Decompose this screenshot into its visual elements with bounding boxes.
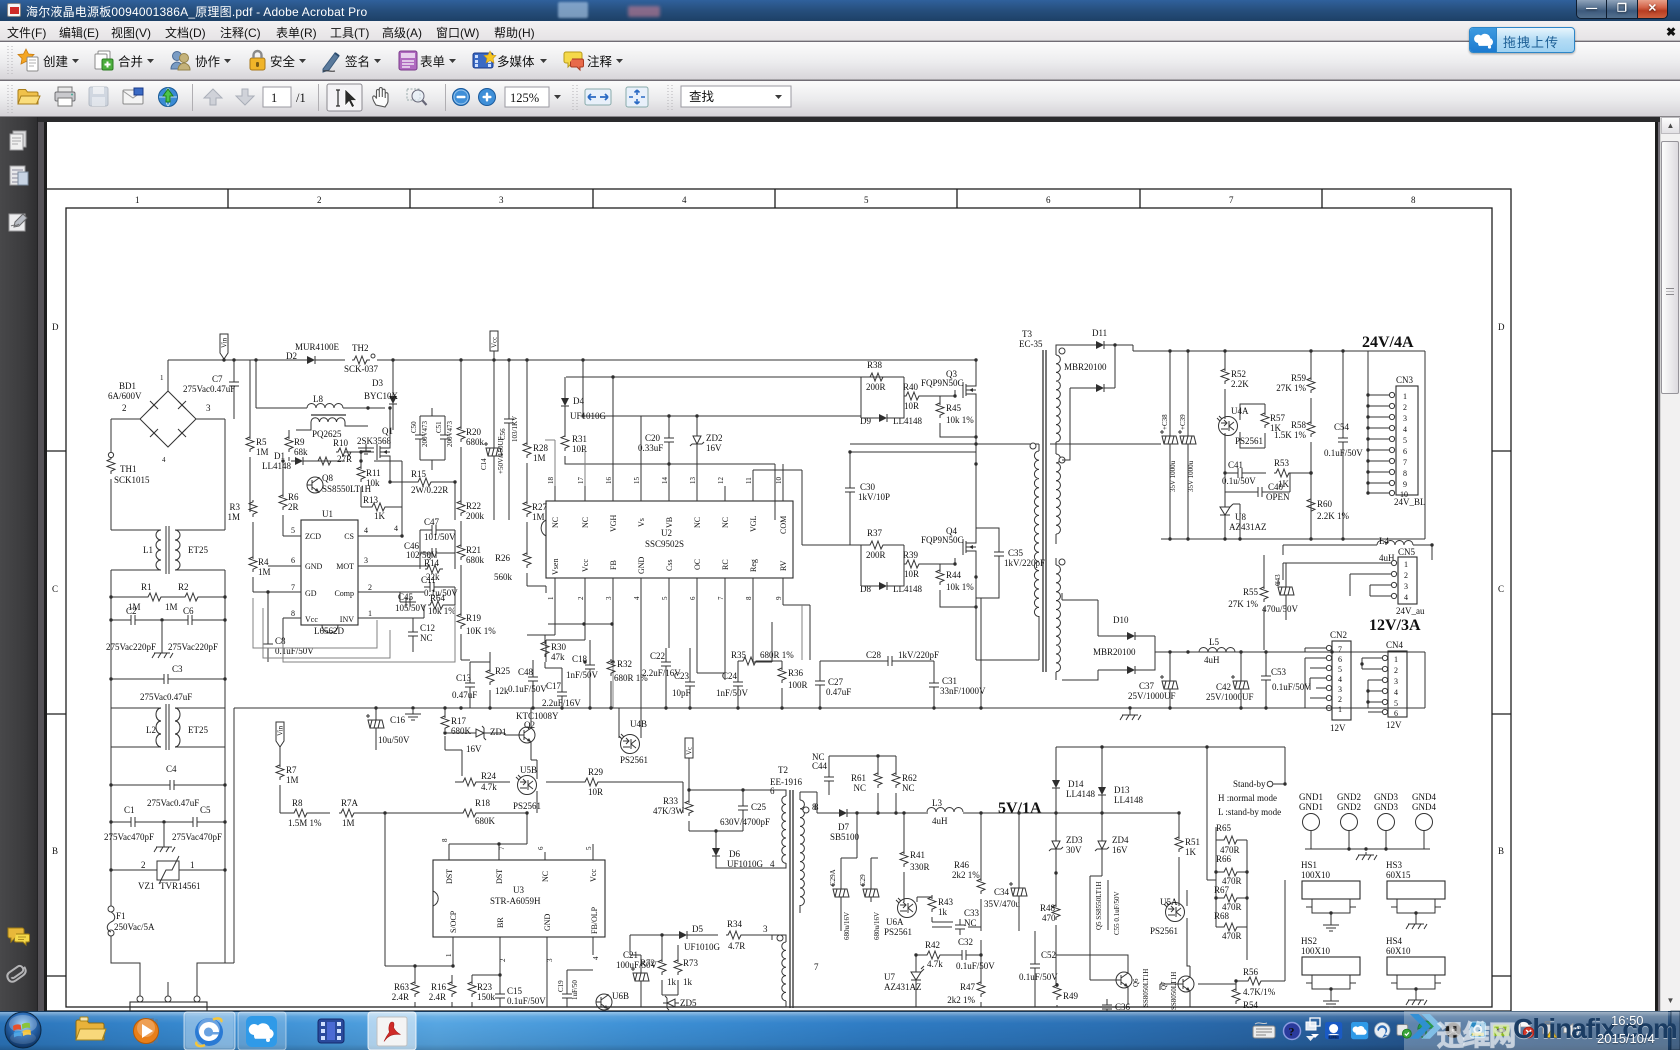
resistor R52 2.2K: [1221, 367, 1229, 384]
node Vcc flag: [490, 331, 499, 360]
capacitor C24 1nF/50V: [733, 676, 743, 692]
icon 注释: [564, 52, 584, 70]
zener ZD3 30V: [1049, 837, 1063, 853]
left panel icon layers: [10, 166, 28, 185]
icon save (disabled): [89, 87, 108, 106]
wire feedback loops under U1: [253, 598, 390, 658]
toolbar row 1: [0, 42, 1680, 80]
resistor R56 4.7K/1%: [1246, 977, 1264, 985]
capacitor C47 101/50V: [426, 525, 442, 535]
fuse F1 250Vac/5A: [108, 906, 114, 912]
tray keyboard icon: [1253, 1023, 1275, 1038]
page number box: [263, 87, 291, 107]
resistor R16 2.4R: [448, 980, 456, 997]
resistor R45 10k 1%: [936, 401, 944, 418]
capacitor C56 103/1KV: [504, 413, 514, 429]
capacitor C21 100uF/50V: [631, 967, 649, 986]
capacitor C1 275Vac470pF: [125, 817, 141, 827]
capacitor C48 0.1uF/50V: [528, 671, 538, 687]
mid rail from T3: [850, 443, 1161, 445]
capacitor C41 0.1u/50V: [1232, 468, 1248, 478]
fit width button: [585, 89, 611, 105]
capacitor C51 200V473: [440, 429, 450, 445]
tray baidu cloud: [1351, 1022, 1368, 1039]
wire L8 to D3: [343, 407, 385, 409]
toolbar row 2: [0, 81, 1680, 117]
wire gate feed: [566, 376, 861, 378]
icon 创建: [18, 49, 38, 71]
wire AC top rail y360: [168, 359, 976, 361]
resistor R17 680K: [441, 714, 449, 731]
resistor R47 2k2 1%: [977, 980, 985, 997]
wires from U2 bottom pins: [555, 593, 783, 708]
capacitor C12 NC: [408, 626, 418, 642]
tray qq live: [1325, 1022, 1342, 1039]
resistor R11 10k: [357, 465, 365, 482]
transistor Q1 2SK3568: [377, 442, 390, 462]
resistor R62 NC: [892, 771, 900, 788]
svg-text:?: ?: [1289, 1025, 1295, 1039]
resistor R1 1M: [146, 593, 164, 601]
show desktop sliver: [1671, 1011, 1680, 1050]
T3 secondary bottom winding: [1056, 565, 1060, 672]
T3 primary winding: [1034, 451, 1039, 617]
icon page down (disabled): [236, 89, 254, 105]
node Vc flag: [685, 738, 694, 790]
tray window stack: [1306, 1018, 1320, 1038]
resistor R7A 1M: [339, 809, 357, 817]
resistor R48 470: [1052, 903, 1060, 920]
capacitor C19 1uF/50: [562, 988, 572, 1004]
ground (C2/C6 midpoint): [152, 622, 173, 658]
resistor R28 1M: [523, 441, 531, 458]
capacitor C3 275Vac0.47uF: [158, 674, 174, 684]
ground (12V rect): [1120, 712, 1141, 720]
resistor R2 1M: [183, 593, 201, 601]
resistor R54: [1232, 987, 1240, 1004]
hand tool: [373, 88, 388, 108]
icon 表单: [399, 51, 417, 70]
capacitor C16 10u/50V: [366, 714, 384, 733]
diode D7 SB5100: [835, 809, 851, 817]
capacitor C43 470u/50V: [1276, 581, 1294, 600]
capacitor C29 680u/16V: [861, 883, 879, 902]
resistor R51 1K: [1175, 835, 1183, 852]
zoom out button: [453, 89, 470, 106]
fit page button: [626, 87, 648, 107]
diode D4 UF1010G: [561, 394, 569, 410]
resistor R63 2.4R: [411, 980, 419, 997]
transistor Q4 FQP9N50C: [963, 537, 976, 557]
icon page up (disabled): [204, 89, 222, 105]
node Vin flag (aux): [276, 722, 285, 756]
T3 secondary mid winding: [1056, 454, 1060, 534]
resistor R7 1M: [276, 763, 284, 780]
resistor R23 150k: [468, 980, 476, 997]
resistor R57 1K: [1261, 411, 1269, 428]
resistor R26 560k: [523, 551, 531, 568]
resistor R3 1M: [249, 500, 257, 517]
drawing frame inner border: [66, 208, 1492, 1007]
optocoupler U4B PS2561: [619, 734, 640, 754]
window title bar: [0, 0, 1680, 21]
svg-text:LIVE: LIVE: [1329, 1035, 1338, 1039]
ground (C1/C5 midpoint): [154, 824, 175, 852]
resistor R49: [1053, 983, 1061, 1000]
capacitor C40 OPEN: [1252, 487, 1268, 497]
capacitor C14 +50V/150UF: [484, 442, 502, 461]
tray phone: [1446, 1023, 1461, 1038]
capacitor C20 0.33uF: [664, 432, 674, 448]
capacitor C42 25V/1000UF: [1231, 675, 1249, 694]
tray umbrella: [1418, 1021, 1434, 1038]
resistor R35 680R 1%: [741, 657, 759, 665]
icon email: [123, 88, 143, 104]
resistor R58 1.5K 1%: [1307, 420, 1315, 437]
zener ZD4 16V: [1095, 837, 1109, 853]
resistor R8 1.5M 1%: [292, 809, 310, 817]
resistor R20 680k: [457, 425, 465, 442]
T2 aux winding: [782, 942, 786, 1001]
separator: [192, 84, 193, 111]
resistor R59 27K 1%: [1307, 376, 1315, 393]
wire half-bridge node: [976, 444, 1039, 537]
resistor R15 2W/0.22R: [416, 478, 434, 486]
IE active box: [184, 1012, 235, 1050]
inductor L8: [307, 404, 343, 409]
optocoupler U5B PS2561: [516, 775, 537, 795]
thermistor TH1 SCK1015: [110, 419, 112, 452]
wires to AC input connector: [111, 906, 225, 999]
baidu cloud active box: [238, 1012, 286, 1050]
ground bus for terminals: [1305, 848, 1430, 850]
resistor R5 1M: [246, 435, 254, 452]
tray camera blue: [1470, 1022, 1486, 1038]
taskbar: [0, 1011, 1680, 1050]
select tool (pressed): [327, 84, 362, 111]
optocoupler U5A PS2561: [1164, 902, 1185, 922]
T2 primary winding: [782, 796, 786, 863]
resistor R10 27R: [336, 448, 354, 456]
transistor Q3 FQP9N50C: [963, 380, 976, 400]
frame row ticks: [46, 451, 1511, 976]
vertical scrollbar: [1660, 117, 1680, 1011]
frame column ticks: [228, 189, 1322, 208]
capacitor C33 NC: [955, 919, 965, 935]
resistor R42 4.7k: [925, 951, 943, 959]
capacitor C29A 680u/16V: [831, 883, 849, 902]
icon print: [55, 87, 75, 106]
resistor R37 200R: [868, 541, 886, 549]
IC U1 L6562D: [301, 520, 358, 625]
transistor Q6 SS8050LT1H: [1116, 972, 1132, 988]
diode D11 MBR20100 (dual): [1092, 341, 1108, 349]
start orb: [5, 1012, 41, 1048]
capacitor C46 102/50V: [426, 548, 442, 558]
resistor R53 1K: [1274, 469, 1292, 477]
resistor R39 10R: [904, 560, 922, 568]
transistor Q8 SS8550LT1H: [307, 477, 323, 493]
capacitor C5 275Vac470pF: [187, 817, 203, 827]
shunt ref U7 AZ431AZ: [911, 968, 924, 984]
diode D6 UF1010G: [712, 844, 720, 860]
diode D13 LL4148: [1098, 783, 1106, 799]
zoom in button: [479, 89, 496, 106]
resistor R41 330R: [900, 850, 908, 867]
capacitor C37 25V/1000UF: [1160, 675, 1178, 694]
capacitor C34 35V/470u: [1009, 882, 1027, 901]
transformer L1 ET25 common-mode choke: [111, 526, 225, 574]
diode D2 MUR4100E: [303, 356, 319, 364]
resistor R46 2k2 1%: [977, 877, 985, 894]
gray feedback wires: [548, 605, 810, 673]
connector CN3: [1396, 386, 1418, 495]
watermark arrow logo: [1410, 1014, 1442, 1039]
tray swirl: [1374, 1022, 1390, 1038]
inductor L4 4uH: [1377, 541, 1413, 546]
drag-upload button: [1469, 27, 1575, 53]
explorer folder icon: [76, 1017, 106, 1040]
toolbar grip dots: [8, 46, 12, 76]
left panel icon comments: [8, 928, 30, 945]
search box: [668, 85, 672, 111]
diode D9 LL4148: [875, 414, 891, 422]
U2 bottom pins: [555, 578, 783, 593]
24V right rail: [1424, 351, 1426, 539]
thermistor TH2 SCK-037: [352, 354, 375, 364]
inductor L5 4uH: [1199, 648, 1235, 653]
capacitor C18 1nF/50V: [585, 659, 595, 675]
resistor R21 680k: [457, 543, 465, 560]
wire PFC node: [256, 360, 307, 408]
left panel icon pages: [10, 131, 26, 150]
capacitor C35 1kV/220pF: [994, 546, 1004, 562]
T3 secondary top winding: [1056, 355, 1060, 442]
tray usb check: [1397, 1025, 1411, 1039]
capacitor C7: [229, 376, 239, 392]
resistor R14 22k: [425, 565, 443, 573]
zener ZD5: [663, 996, 679, 1010]
capacitor C32 0.1uF/50V: [956, 950, 972, 960]
resistor R60 2.2K 1%: [1307, 497, 1315, 514]
resistor R72 1k: [658, 958, 666, 975]
resistor R55 27K 1%: [1260, 585, 1268, 602]
separator: [573, 85, 577, 111]
12V right rail: [1424, 652, 1426, 708]
capacitor C30 1kV/10P: [845, 482, 855, 498]
capacitor C54 0.1uF/50V: [1338, 432, 1348, 448]
resistor R36 100R: [778, 666, 786, 683]
resistor R9 68k: [285, 435, 293, 452]
U2 top pins: [555, 486, 783, 501]
transistor Q2 KTC1008Y: [519, 727, 535, 743]
shunt ref U8 AZ431AZ: [1220, 503, 1233, 519]
capacitor C31 33nF/1000V: [929, 677, 939, 693]
capacitor C27 0.47uF: [815, 675, 825, 691]
menu bar: [0, 21, 1680, 41]
connector CN5: [1398, 557, 1417, 604]
resistor R27 1M: [523, 500, 531, 517]
capacitor C17 2.2uF/16V: [557, 686, 567, 702]
media player icon: [318, 1019, 344, 1043]
transformer PQ2625 aux winding: [311, 414, 346, 416]
capacitor C50 200V473: [415, 429, 425, 445]
resistor R29 10R: [583, 778, 601, 786]
transistor U6B: [596, 994, 612, 1010]
bridge rectifier BD1: [140, 391, 196, 447]
separator: [445, 84, 446, 111]
capacitor C38 35V1000u: [1160, 430, 1178, 449]
capacitor C39 35V1000u: [1178, 430, 1196, 449]
icon 安全: [250, 51, 265, 70]
zener ZD1 16V: [472, 726, 488, 740]
resistor R44 10k 1%: [936, 568, 944, 585]
capacitor C2 275Vac220pF: [125, 615, 141, 625]
zoom tool: [407, 89, 427, 105]
wires from U2 top pins: [613, 377, 802, 520]
resistor R30 47k: [541, 640, 549, 657]
resistor R73 1k: [674, 958, 682, 975]
adobe active box: [368, 1012, 416, 1050]
tray speaker: [1564, 1024, 1579, 1037]
left panel icon signature: [9, 214, 27, 231]
capacitor C45 105/50V: [400, 597, 416, 607]
tray action flag: [1520, 1021, 1534, 1038]
resistor R25 12k: [486, 668, 494, 685]
diode D8 LL4148: [875, 582, 891, 590]
node Vin flag (top): [220, 334, 229, 360]
diode D3 BYC10X: [389, 392, 397, 408]
wire VB rail: [583, 415, 861, 417]
resistor R24 4.7k: [461, 778, 479, 786]
capacitor C22 2.2uF/16V: [661, 656, 671, 672]
capacitor C6 275Vac220pF: [182, 615, 198, 625]
tray usb warning: [1543, 1022, 1557, 1038]
diode D10 MBR20100 (dual): [1123, 632, 1139, 640]
icon 协作: [171, 52, 190, 71]
capacitor C53 0.1uF/50V: [1261, 670, 1271, 686]
capacitor C8 0.1uF/50V: [263, 638, 273, 654]
capacitor C23 10pF: [685, 676, 695, 692]
diode D1 LL4148: [291, 457, 307, 465]
resistor R31 10R: [561, 434, 569, 451]
varistor VZ1 TVR14561: [157, 856, 179, 884]
resistor R43 1k: [928, 895, 936, 912]
icon upload globe: [159, 88, 178, 107]
resistor R32 680R 1%: [607, 659, 615, 676]
tray caret: [1306, 1036, 1315, 1041]
tray nvidia: [1493, 1025, 1509, 1036]
icon 签名: [323, 53, 339, 72]
T2 secondary winding: [800, 800, 804, 906]
resistor R4 1M: [249, 555, 257, 572]
inductor L3 4uH: [927, 808, 963, 813]
IC U2 SSC9502S: [546, 501, 793, 578]
IC U3 STR-A6059H: [433, 860, 605, 937]
diode D14 LL4148: [1052, 776, 1060, 792]
wire: [861, 377, 904, 418]
resistor R34 4.7R: [726, 931, 744, 939]
resistor R18 680K: [461, 809, 479, 817]
capacitor C4 275Vac0.47uF: [164, 780, 180, 790]
AC input connector: [137, 996, 143, 1002]
transistor Q7 SS8050LT1H: [1178, 976, 1194, 992]
resistor R61 NC: [874, 771, 882, 788]
snubber C28 1kV/220pF: [882, 656, 898, 666]
transformer L2 ET25 common-mode choke: [111, 704, 225, 750]
ground (aux): [405, 710, 421, 720]
resistor R22 200k: [457, 499, 465, 516]
connector CN4: [1388, 651, 1407, 717]
resistor R38 200R: [868, 373, 886, 381]
5V rail: [817, 812, 1180, 814]
capacitor C36: [1102, 999, 1112, 1015]
capacitor C25 630V/4700pF: [738, 800, 748, 816]
resistor R40 10R: [904, 392, 922, 400]
tray help icon: [1284, 1023, 1301, 1040]
capacitor C11 0.1u/50V: [424, 582, 440, 592]
resistor R64 10k 1%: [428, 601, 446, 609]
zoom level box: [505, 87, 549, 107]
icon 合并: [95, 51, 113, 70]
resistor R33 47K/3W: [685, 799, 693, 816]
capacitor C44 NC: [824, 771, 834, 787]
left panel icon paperclip: [6, 964, 26, 984]
drawing frame outer border: [46, 189, 1511, 1011]
icon 多媒体: [473, 51, 496, 68]
capacitor C13 0.47uF: [465, 677, 475, 693]
separator: [318, 84, 319, 111]
row2: icon open folder: [18, 90, 40, 105]
ground (Q1 gate return): [354, 444, 374, 454]
resistor R19 10K 1%: [457, 612, 465, 629]
wmp icon: [134, 1018, 159, 1044]
optocoupler U4A PS2561: [1217, 416, 1238, 436]
resistor R6 2R: [279, 493, 287, 510]
resistor R13 1K: [370, 503, 388, 511]
capacitor C52 0.1uF/50V: [1030, 958, 1040, 974]
24V bottom rail: [1161, 538, 1425, 540]
optocoupler U6A PS2561: [896, 898, 917, 918]
watermark panel: [1404, 1011, 1668, 1050]
capacitor C15 0.1uF/50V: [495, 988, 505, 1004]
zener ZD2 16V: [690, 432, 704, 448]
resistor R12 (gate): [316, 457, 334, 465]
diode D5 UF1010G: [675, 931, 691, 939]
connector CN2: [1332, 641, 1351, 720]
